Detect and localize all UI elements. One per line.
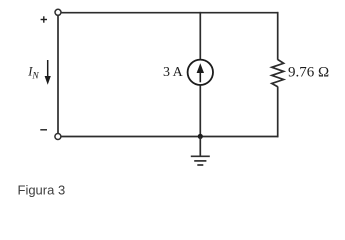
arrow IN (pointing down) (45, 60, 51, 85)
svg-text:9.76 Ω: 9.76 Ω (288, 65, 329, 81)
svg-text:Figura 3: Figura 3 (18, 182, 66, 197)
wire right upper (top-right corner to resistor top) (277, 12, 279, 60)
terminal b (negative, open circle) (55, 134, 61, 140)
wire bottom (bottom-right corner to negative terminal) (61, 136, 278, 138)
resistor R 9.76 ohm zigzag (272, 60, 284, 87)
wire current source top (199, 12, 201, 60)
current source I1 (circle) (188, 60, 213, 85)
ground symbol (191, 136, 210, 165)
wire current source bottom (199, 85, 201, 137)
junction node (dot) (198, 134, 203, 139)
svg-text:3 A: 3 A (163, 65, 184, 80)
label plus (41, 16, 47, 22)
arrow inside current source (pointing up) (197, 63, 204, 82)
wire top (positive terminal to top-right corner) (61, 12, 279, 14)
terminal a (positive, open circle) (55, 9, 61, 15)
wire right lower (resistor bottom to bottom-right corner) (277, 87, 279, 138)
wire left (between terminals) (57, 16, 59, 134)
svg-text:IN: IN (27, 65, 39, 82)
label minus (40, 129, 47, 131)
